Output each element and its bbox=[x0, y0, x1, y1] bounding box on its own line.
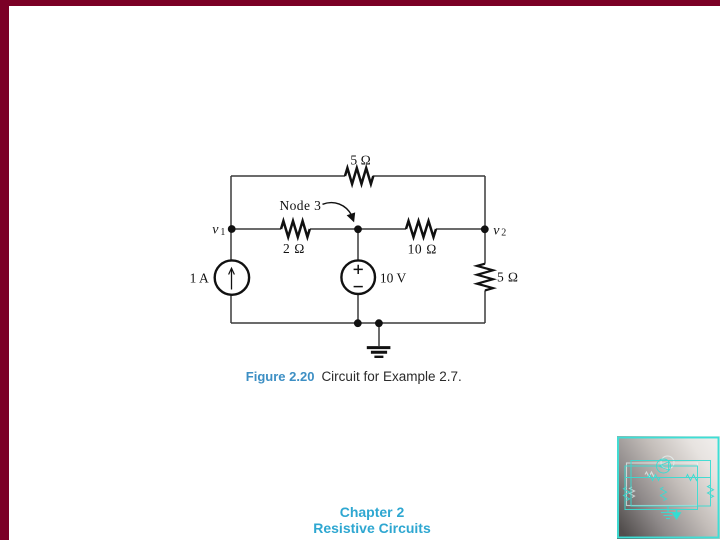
footer chapter text bbox=[12, 504, 720, 537]
logo down arrow bbox=[673, 509, 680, 519]
inner offset rect bbox=[625, 466, 698, 510]
resistor R 10ohm bbox=[406, 221, 436, 237]
svg-text:10 Ω: 10 Ω bbox=[408, 241, 437, 256]
svg-text:1: 1 bbox=[220, 227, 225, 238]
source circle bbox=[657, 459, 671, 473]
node 3 dot bbox=[354, 225, 362, 233]
source bowtie bbox=[659, 462, 669, 470]
logo cyan frame bbox=[618, 438, 719, 538]
wire ground stub bbox=[378, 323, 380, 346]
svg-text:v: v bbox=[212, 223, 219, 238]
node v2 dot bbox=[481, 225, 489, 233]
voltage source V1 10V circle bbox=[341, 260, 375, 294]
svg-text:2: 2 bbox=[501, 227, 506, 238]
svg-text:Node 3: Node 3 bbox=[280, 198, 322, 213]
zigzag mid-right bbox=[686, 475, 698, 481]
zigzag mid vertical bbox=[661, 487, 667, 501]
wire right vertical lower bbox=[484, 290, 486, 323]
ground symbol bbox=[367, 346, 391, 349]
bottom node dot left bbox=[354, 319, 362, 327]
current source I1 1A circle bbox=[215, 260, 249, 294]
ground stub and bars bbox=[661, 506, 675, 519]
figure caption bbox=[246, 370, 462, 384]
wire top-left segment bbox=[231, 175, 345, 177]
wire middle v1 to 2ohm bbox=[231, 228, 281, 230]
resistor R 5ohm top bbox=[345, 168, 373, 184]
wire left vertical lower bbox=[230, 295, 232, 323]
logo background bbox=[617, 436, 720, 539]
logo cyan circuit bbox=[624, 459, 714, 519]
logo bottom-right bbox=[617, 436, 720, 539]
wire 10ohm to v2 bbox=[436, 228, 485, 230]
current source arrow bbox=[231, 269, 233, 290]
zigzag right vertical bbox=[708, 485, 714, 498]
slide left maroon border bbox=[0, 0, 9, 540]
wire top-right segment bbox=[373, 175, 485, 177]
wire 2ohm to node3 bbox=[310, 228, 406, 230]
wire left vertical upper bbox=[230, 176, 232, 260]
outer rect bbox=[631, 461, 711, 507]
svg-text:2 Ω: 2 Ω bbox=[283, 241, 305, 256]
svg-text:5 Ω: 5 Ω bbox=[350, 153, 371, 168]
zigzag mid-left bbox=[648, 475, 660, 481]
slide top maroon border bbox=[0, 0, 720, 6]
wire right vertical upper bbox=[484, 176, 486, 264]
svg-text:10 V: 10 V bbox=[380, 271, 407, 286]
wire middle vertical upper bbox=[357, 229, 359, 261]
resistor R 5ohm right vertical bbox=[477, 264, 493, 291]
svg-text:v: v bbox=[493, 223, 500, 238]
wire middle vertical lower bbox=[357, 294, 359, 323]
wire bottom bbox=[231, 322, 485, 324]
resistor R 2ohm bbox=[281, 221, 310, 237]
svg-text:5 Ω: 5 Ω bbox=[497, 269, 518, 284]
node v1 dot bbox=[228, 225, 236, 233]
zigzag left vertical bbox=[624, 487, 630, 501]
bottom node dot right bbox=[375, 319, 383, 327]
svg-text:1 A: 1 A bbox=[190, 271, 209, 286]
logo white ghost circuit bbox=[627, 456, 698, 506]
minus sign bbox=[354, 286, 363, 288]
mid wire bbox=[625, 477, 711, 479]
Node 3 pointer arrow bbox=[323, 203, 352, 216]
plus sign bbox=[354, 265, 363, 274]
